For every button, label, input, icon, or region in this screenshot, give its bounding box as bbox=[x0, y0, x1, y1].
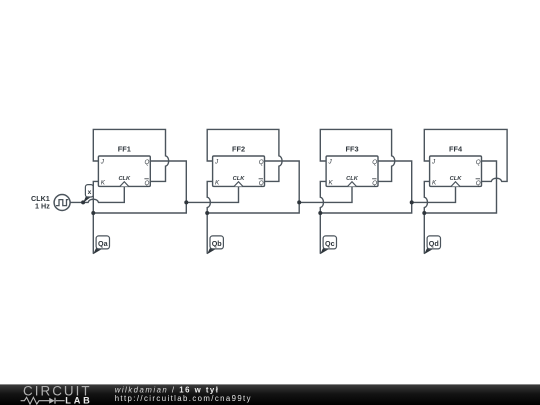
svg-text:Q: Q bbox=[476, 180, 481, 187]
svg-text:FF2: FF2 bbox=[232, 144, 245, 153]
svg-text:x: x bbox=[88, 189, 92, 196]
node Qb name flag bbox=[207, 236, 223, 254]
svg-text:CLK: CLK bbox=[450, 176, 463, 182]
wire Q-to-K feedback row FF2 bbox=[207, 202, 299, 213]
wire K input / node Qa FF1 bbox=[93, 181, 98, 253]
svg-text:CLK: CLK bbox=[118, 176, 131, 182]
svg-text:LAB: LAB bbox=[65, 396, 92, 405]
svg-text:Q: Q bbox=[259, 180, 264, 187]
svg-text:Q: Q bbox=[372, 159, 377, 166]
svg-text:CLK: CLK bbox=[346, 176, 359, 182]
svg-text:Qc: Qc bbox=[325, 239, 335, 248]
svg-text:wilkdamian / 16 w tył: wilkdamian / 16 w tył bbox=[115, 385, 220, 394]
svg-text:1 Hz: 1 Hz bbox=[35, 201, 50, 210]
svg-text:CLK: CLK bbox=[233, 176, 246, 182]
wire Q output FF4 bbox=[424, 161, 496, 213]
node Qa name flag bbox=[93, 236, 109, 254]
svg-text:FF3: FF3 bbox=[345, 144, 358, 153]
svg-text:Qa: Qa bbox=[98, 239, 109, 248]
svg-text:Q: Q bbox=[145, 180, 150, 187]
svg-text:Q: Q bbox=[476, 159, 481, 166]
wire J-to-Qbar loop FF4 bbox=[424, 129, 507, 181]
flip-flop FF4 (JK) bbox=[430, 156, 482, 187]
svg-text:Qd: Qd bbox=[429, 239, 439, 248]
clock source CLK1 bbox=[54, 195, 70, 211]
wire J-to-Qbar loop FF3 bbox=[320, 129, 394, 181]
node Qc name flag bbox=[320, 236, 336, 254]
svg-text:Qb: Qb bbox=[212, 239, 223, 248]
svg-text:http://circuitlab.com/cna99ty: http://circuitlab.com/cna99ty bbox=[115, 394, 252, 403]
wire CLK1 output to FF1 clock input bbox=[70, 186, 124, 202]
node x name flag bbox=[83, 185, 93, 203]
CircuitLab logo bbox=[21, 383, 93, 405]
svg-text:Q: Q bbox=[372, 180, 377, 187]
svg-text:FF4: FF4 bbox=[449, 144, 463, 153]
junction dot K/row node FF3 bbox=[318, 211, 322, 215]
svg-text:FF1: FF1 bbox=[118, 144, 131, 153]
node x junction dot bbox=[81, 200, 85, 204]
junction dot K/row node FF1 bbox=[91, 211, 95, 215]
junction dot Q node FF1 bbox=[184, 200, 188, 204]
wire FF2 Q to FF3 clock bbox=[299, 186, 352, 202]
flip-flop FF2 (JK) bbox=[213, 156, 265, 187]
junction dot Q node FF2 bbox=[297, 200, 301, 204]
svg-text:Q: Q bbox=[145, 159, 150, 166]
wire Q output FF1 bbox=[150, 161, 186, 202]
junction dot Q node FF3 bbox=[410, 200, 414, 204]
svg-text:Q: Q bbox=[259, 159, 264, 166]
wire Q output FF2 bbox=[265, 161, 300, 202]
junction dot K/row node FF2 bbox=[205, 211, 209, 215]
wire K input / node Qc FF3 bbox=[320, 181, 326, 253]
wire Q-to-K feedback row FF3 bbox=[320, 202, 411, 213]
wire K input / node Qd FF4 bbox=[424, 181, 429, 253]
wire FF1 Q to FF2 clock bbox=[186, 186, 238, 202]
flip-flop FF1 (JK) bbox=[98, 156, 150, 187]
wire J-to-Qbar loop FF2 bbox=[207, 129, 282, 181]
wire FF3 Q to FF4 clock bbox=[412, 186, 456, 202]
junction dot K/row node FF4 bbox=[422, 211, 426, 215]
wire K input / node Qb FF2 bbox=[207, 181, 212, 253]
label CLK1 value 1 Hz bbox=[31, 194, 50, 210]
wire J-to-Qbar loop FF1 bbox=[93, 129, 168, 181]
flip-flop FF3 (JK) bbox=[326, 156, 378, 187]
wire Q-to-K feedback row FF1 bbox=[93, 202, 186, 213]
node Qd name flag bbox=[424, 236, 440, 254]
wire Q output FF3 bbox=[378, 161, 412, 202]
